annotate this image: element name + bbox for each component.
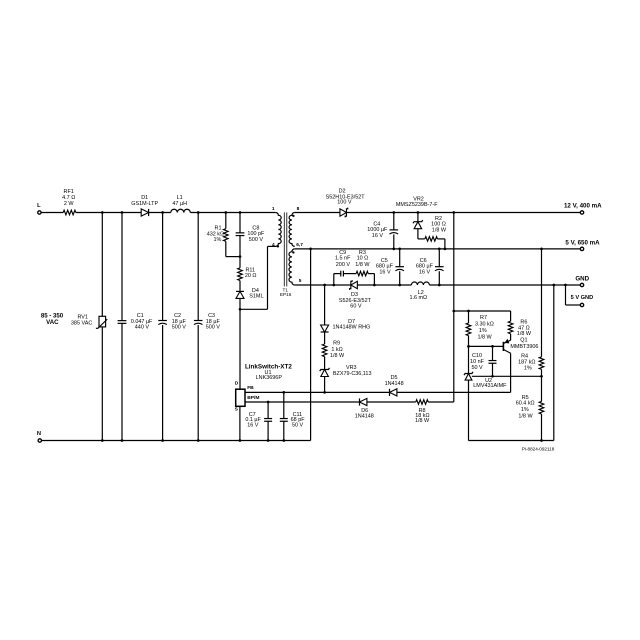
wire C7 lower bbox=[267, 421, 269, 440]
node FB-C11 bbox=[282, 391, 285, 394]
svg-text:1/8 W: 1/8 W bbox=[477, 335, 492, 341]
transformer T1 secondary winding 67-5 bbox=[289, 249, 295, 285]
svg-text:5 V, 650 mA: 5 V, 650 mA bbox=[565, 239, 600, 246]
svg-text:500 V: 500 V bbox=[172, 325, 187, 331]
wire U1 S to bottom rail bbox=[239, 406, 241, 440]
T1 name label bbox=[280, 287, 292, 297]
T1 pin1 label bbox=[272, 206, 275, 212]
svg-text:LMV431AIMF: LMV431AIMF bbox=[473, 383, 507, 389]
svg-text:1N4148: 1N4148 bbox=[385, 381, 404, 387]
resistor R5 bbox=[516, 395, 544, 420]
ic U1 LinkSwitch-XT2 body bbox=[236, 364, 293, 407]
diode D1 bbox=[131, 195, 158, 216]
node C6 top bbox=[438, 248, 441, 251]
capacitor C7 bbox=[245, 412, 272, 428]
svg-text:440 V: 440 V bbox=[135, 325, 150, 331]
svg-text:500 V: 500 V bbox=[206, 325, 221, 331]
node C10-ref bbox=[491, 375, 494, 378]
wire C8 upper bbox=[239, 213, 241, 233]
wire GND to feedback bottom bbox=[553, 285, 555, 441]
node R2-5V rail bbox=[444, 248, 447, 251]
diode D4 bbox=[236, 288, 264, 299]
node C5 top bbox=[398, 248, 401, 251]
wire C7 upper bbox=[267, 402, 269, 418]
capacitor C4 bbox=[367, 222, 398, 239]
svg-text:MMBT3906: MMBT3906 bbox=[510, 344, 538, 350]
svg-text:1%: 1% bbox=[524, 366, 532, 372]
wire L1 to T1 pin1 bbox=[190, 212, 275, 214]
terminal 5V output bbox=[565, 239, 600, 250]
node R1 top bbox=[224, 211, 227, 214]
wire R1 lower bbox=[226, 241, 240, 256]
diode D3 bbox=[339, 280, 372, 310]
wire C1 column lower bbox=[121, 324, 123, 441]
svg-text:6,7: 6,7 bbox=[296, 242, 303, 248]
U1 pin D label bbox=[235, 380, 239, 386]
svg-text:5: 5 bbox=[299, 278, 302, 284]
wire C5 upper bbox=[399, 249, 401, 267]
wire pin8 to D2 bbox=[295, 212, 340, 214]
resistor R8 bbox=[415, 400, 430, 424]
svg-text:1%: 1% bbox=[479, 328, 487, 334]
wire L2 to GND terminal bbox=[429, 284, 580, 286]
snubber loop wires bbox=[334, 274, 375, 285]
svg-text:3.30 kΩ: 3.30 kΩ bbox=[475, 322, 494, 328]
svg-text:D: D bbox=[235, 380, 239, 386]
capacitor C10 bbox=[470, 353, 496, 371]
node base-C10 bbox=[491, 345, 494, 348]
wire 12V sense column bbox=[453, 213, 455, 403]
wire R2 to 5V rail bbox=[438, 239, 445, 249]
svg-text:VAC: VAC bbox=[46, 319, 59, 326]
wire C11 upper bbox=[283, 392, 285, 418]
capacitor C11 bbox=[280, 412, 305, 428]
svg-text:16 V: 16 V bbox=[372, 233, 384, 239]
node snubber corner right bbox=[373, 284, 376, 287]
svg-text:16 V: 16 V bbox=[379, 269, 391, 275]
node R4 top bbox=[540, 248, 543, 251]
svg-text:385 VAC: 385 VAC bbox=[71, 320, 92, 326]
svg-text:1/8 W: 1/8 W bbox=[415, 418, 430, 424]
diode D2 bbox=[326, 188, 366, 217]
svg-text:LNK3696P: LNK3696P bbox=[256, 375, 283, 381]
svg-text:S1ML: S1ML bbox=[249, 294, 263, 300]
node 12V-VR2 bbox=[417, 211, 420, 214]
T1 pin8 label bbox=[297, 206, 300, 212]
svg-text:R9: R9 bbox=[333, 341, 340, 347]
T1 secondary-top phase dot bbox=[292, 215, 294, 217]
svg-text:EP16: EP16 bbox=[280, 292, 292, 297]
node N-C1 bbox=[121, 439, 124, 442]
transistor Q1 MMBT3906 bbox=[503, 338, 538, 354]
diode D6 bbox=[355, 398, 374, 419]
node C4-5V rail bbox=[392, 248, 395, 251]
node N-C2 bbox=[161, 439, 164, 442]
svg-text:10 Ω: 10 Ω bbox=[357, 256, 369, 262]
svg-text:16 V: 16 V bbox=[247, 422, 259, 428]
svg-text:MMSZ5239B-7-F: MMSZ5239B-7-F bbox=[396, 202, 438, 208]
svg-text:GS1M-LTP: GS1M-LTP bbox=[131, 201, 158, 207]
wire BPM line bbox=[245, 401, 359, 403]
svg-text:Q1: Q1 bbox=[520, 338, 527, 344]
wire C6 upper bbox=[438, 249, 440, 267]
wire D7 to R9 bbox=[324, 332, 326, 344]
wire C5 lower bbox=[399, 271, 401, 285]
U1 pin BPM label bbox=[247, 395, 259, 401]
resistor R1 bbox=[207, 226, 228, 244]
node C11-bottom bbox=[282, 439, 285, 442]
wire 67 to bottom rail bbox=[310, 249, 312, 441]
svg-text:1/8 W: 1/8 W bbox=[432, 227, 447, 233]
wire R4 lower bbox=[541, 369, 543, 376]
svg-text:1/8 W: 1/8 W bbox=[330, 353, 345, 359]
wire C1 column upper bbox=[121, 213, 123, 321]
wire 5VGND branch bbox=[566, 285, 581, 305]
capacitor C6 bbox=[416, 258, 444, 276]
svg-text:BZX79-C36,113: BZX79-C36,113 bbox=[333, 371, 372, 377]
capacitor C1 bbox=[118, 313, 153, 331]
svg-text:500 V: 500 V bbox=[249, 237, 264, 243]
svg-text:N: N bbox=[37, 431, 41, 437]
wire pin5 rail left bbox=[295, 284, 351, 286]
wire C11 lower bbox=[283, 421, 285, 440]
resistor R3 bbox=[355, 250, 370, 276]
svg-text:1%: 1% bbox=[521, 407, 529, 413]
wire to R11 bbox=[239, 257, 241, 268]
svg-text:16 V: 16 V bbox=[419, 269, 431, 275]
wire D1 to L1 bbox=[149, 212, 171, 214]
wire C4 upper bbox=[393, 213, 395, 230]
wire R11 to D4 bbox=[239, 281, 241, 292]
wire base rail bbox=[469, 345, 504, 347]
wire clamp to pin4 bbox=[240, 246, 276, 309]
node N-RV1 bbox=[101, 439, 104, 442]
T1 pin4 label bbox=[272, 242, 275, 248]
wire R1 upper bbox=[225, 213, 227, 229]
diode D5 bbox=[385, 375, 404, 396]
svg-text:47 µH: 47 µH bbox=[172, 201, 187, 207]
svg-text:1N4148W RHG: 1N4148W RHG bbox=[333, 325, 371, 331]
svg-text:1.5 nF: 1.5 nF bbox=[335, 256, 351, 262]
wire C3 column lower bbox=[197, 325, 199, 441]
node N-C3 bbox=[197, 439, 200, 442]
wire C10 lower bbox=[492, 363, 494, 376]
capacitor C5 bbox=[376, 258, 404, 276]
wire L to RF1 bbox=[41, 212, 63, 214]
T1 pin67 label bbox=[296, 242, 303, 248]
wire R8 to 12V sense bbox=[428, 401, 454, 403]
wire D3 to snubber right bbox=[357, 284, 411, 286]
transformer T1 secondary winding 8-67 bbox=[289, 213, 295, 247]
resistor R6 bbox=[508, 320, 532, 337]
svg-text:187 kΩ: 187 kΩ bbox=[518, 359, 535, 365]
wire D4 to drain node bbox=[239, 298, 241, 309]
resistor R11 bbox=[238, 268, 257, 281]
terminal L bbox=[37, 203, 41, 214]
inductor L2 bbox=[409, 282, 429, 301]
wire U2 cathode bbox=[468, 346, 470, 373]
svg-text:1/8 W: 1/8 W bbox=[355, 262, 370, 268]
node 12V-sense bbox=[452, 211, 455, 214]
capacitor C2 bbox=[158, 313, 186, 331]
node drain-clamp bbox=[239, 308, 242, 311]
svg-text:R4: R4 bbox=[521, 353, 528, 359]
node base-R7-U2 bbox=[467, 345, 470, 348]
node L-RV1 bbox=[101, 211, 104, 214]
terminal GND bbox=[575, 275, 589, 286]
svg-text:BP/M: BP/M bbox=[247, 395, 259, 401]
wire RF1 to D1 bbox=[76, 212, 141, 214]
wire D2 to 12V terminal bbox=[346, 212, 580, 214]
svg-text:50 V: 50 V bbox=[292, 422, 304, 428]
wire C6 lower bbox=[438, 271, 440, 285]
resistor RF1 bbox=[62, 189, 76, 215]
zener VR3 bbox=[320, 365, 372, 377]
wire 67 rail bbox=[295, 248, 581, 250]
capacitor C9 bbox=[335, 250, 351, 277]
resistor R4 bbox=[518, 353, 544, 371]
node L1-C3 bbox=[197, 211, 200, 214]
node VR3-FB bbox=[323, 391, 326, 394]
svg-text:4: 4 bbox=[272, 242, 275, 248]
varistor RV1 bbox=[71, 315, 107, 329]
wire C8 lower bbox=[239, 236, 241, 257]
wire R9 to VR3 bbox=[324, 357, 326, 370]
wire U2 anode bbox=[468, 380, 470, 440]
svg-text:S: S bbox=[235, 407, 239, 413]
node ref-R4-R5 bbox=[540, 375, 543, 378]
wire VR3 to FB line bbox=[324, 376, 326, 392]
node C7-bottom bbox=[267, 439, 270, 442]
wire R5 lower bbox=[541, 414, 543, 441]
node C8 top bbox=[239, 211, 242, 214]
wire feedback top rail bbox=[454, 311, 511, 321]
wire pin5 to D7 bbox=[324, 285, 326, 325]
svg-text:8: 8 bbox=[297, 206, 300, 212]
wire RV1 column upper bbox=[101, 213, 103, 317]
resistor R9 bbox=[322, 341, 345, 359]
diode D7 bbox=[321, 319, 371, 332]
node S-bottom rail bbox=[239, 439, 242, 442]
node R1-C8 join bbox=[239, 255, 242, 258]
terminal N bbox=[37, 431, 42, 442]
wire C10 upper bbox=[492, 346, 494, 360]
wire D5 to collector corner bbox=[397, 391, 511, 393]
node C6-GND rail bbox=[438, 284, 441, 287]
wire Q1 emitter bbox=[510, 334, 512, 340]
terminal 12V output bbox=[564, 202, 602, 214]
node D1-C2 bbox=[161, 211, 164, 214]
wire R4 upper bbox=[541, 249, 543, 357]
node GND-5VGND bbox=[564, 284, 567, 287]
svg-text:100 V: 100 V bbox=[337, 200, 352, 206]
transformer T1 primary winding bbox=[276, 213, 282, 247]
resistor R2 bbox=[425, 216, 447, 241]
svg-text:200 V: 200 V bbox=[336, 262, 351, 268]
node D3 snubber left bbox=[323, 284, 326, 287]
svg-text:60.4 kΩ: 60.4 kΩ bbox=[516, 401, 535, 407]
wire D6 to R8 bbox=[367, 401, 416, 403]
svg-text:L1: L1 bbox=[177, 195, 183, 201]
node 67 down-feed bbox=[309, 248, 312, 251]
wire R5 upper bbox=[541, 376, 543, 401]
svg-text:PI-8824-092118: PI-8824-092118 bbox=[522, 446, 555, 451]
wire N rail bbox=[42, 440, 311, 442]
svg-text:1.6 mΩ: 1.6 mΩ bbox=[409, 295, 427, 301]
svg-text:60 V: 60 V bbox=[350, 304, 362, 310]
wire C4 lower bbox=[393, 234, 395, 249]
wire feedback bottom rail bbox=[469, 440, 554, 442]
node BPM-C7 bbox=[267, 401, 270, 404]
svg-text:1/8 W: 1/8 W bbox=[518, 414, 533, 420]
svg-text:20 Ω: 20 Ω bbox=[245, 273, 257, 279]
wire VR2 to R2 bbox=[418, 229, 425, 239]
node C5-GND rail bbox=[398, 284, 401, 287]
svg-text:1N4148: 1N4148 bbox=[355, 413, 374, 419]
resistor R7 bbox=[466, 315, 494, 341]
svg-text:12 V, 400 mA: 12 V, 400 mA bbox=[564, 202, 602, 209]
wire U2 ref line bbox=[472, 375, 542, 377]
wire drain to U1 D pin bbox=[239, 309, 241, 389]
U1 pin S label bbox=[235, 407, 239, 413]
svg-text:1/8 W: 1/8 W bbox=[517, 331, 532, 337]
svg-text:L: L bbox=[37, 203, 41, 209]
T1 pin5 label bbox=[299, 278, 302, 284]
wire R7 lower bbox=[468, 336, 470, 347]
svg-text:1 kΩ: 1 kΩ bbox=[331, 347, 342, 353]
capacitor C3 bbox=[194, 313, 221, 331]
wire FB line bbox=[245, 391, 389, 393]
svg-text:50 V: 50 V bbox=[472, 365, 484, 371]
svg-text:2 W: 2 W bbox=[64, 201, 75, 207]
input range label bbox=[41, 312, 64, 326]
node L-C1 bbox=[121, 211, 124, 214]
wire R7 upper bbox=[468, 311, 470, 323]
inductor L1 bbox=[171, 195, 191, 213]
zener VR2 bbox=[396, 196, 438, 228]
node R5-bottom bbox=[540, 439, 543, 442]
U1 pin FB label bbox=[247, 385, 254, 391]
node sense-feedback top bbox=[452, 310, 455, 313]
drawing number bbox=[522, 446, 555, 451]
svg-text:FB: FB bbox=[247, 385, 254, 391]
svg-text:GND: GND bbox=[575, 275, 589, 282]
svg-text:1: 1 bbox=[272, 206, 275, 212]
transformer core bbox=[284, 212, 286, 286]
node R7 top bbox=[467, 310, 470, 313]
wire C2 column upper bbox=[162, 213, 164, 321]
node snubber corner left bbox=[332, 284, 335, 287]
T1 secondary-bottom phase dot bbox=[292, 251, 294, 253]
T1 primary phase dot bbox=[277, 245, 279, 247]
svg-text:1%: 1% bbox=[213, 237, 221, 243]
svg-text:R7: R7 bbox=[480, 315, 487, 321]
wire C3 column upper bbox=[197, 213, 199, 321]
svg-text:5 V GND: 5 V GND bbox=[571, 295, 594, 301]
terminal 5V GND bbox=[571, 295, 594, 306]
wire RV1 column lower bbox=[101, 327, 103, 441]
capacitor C8 bbox=[236, 225, 265, 243]
shunt regulator U2 LMV431 bbox=[464, 372, 507, 389]
node GND-fbreturn bbox=[552, 284, 555, 287]
wire Q1 collector bbox=[510, 353, 512, 392]
node 12V-C4 bbox=[392, 211, 395, 214]
wire C2 column lower bbox=[162, 325, 164, 441]
